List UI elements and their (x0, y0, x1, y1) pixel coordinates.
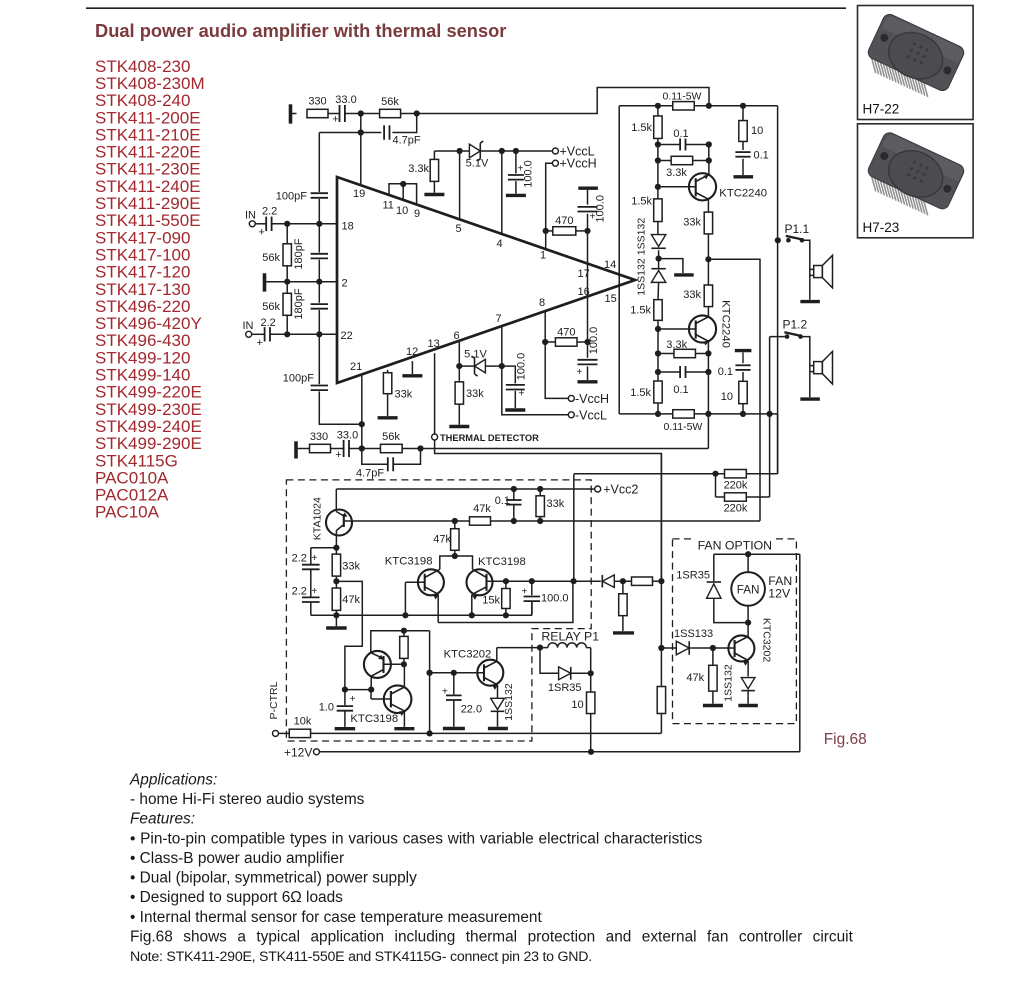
svg-text:19: 19 (353, 188, 365, 200)
svg-text:47k: 47k (686, 672, 704, 684)
svg-text:2: 2 (342, 278, 348, 290)
svg-text:47k: 47k (342, 594, 360, 606)
svg-text:RELAY P1: RELAY P1 (541, 629, 599, 643)
svg-text:STK499-290E: STK499-290E (95, 434, 202, 453)
diode 1SS132 (fan emitter) (722, 664, 758, 705)
svg-text:0.1: 0.1 (673, 384, 688, 396)
capacitor 0.1 (zobel bottom) (718, 351, 752, 382)
svg-text:KTC3198: KTC3198 (350, 713, 398, 725)
svg-text:33k: 33k (466, 388, 484, 400)
wire 220k rail (574, 414, 778, 581)
node (705, 411, 711, 417)
resistor 470 (pin16) (545, 327, 587, 347)
resistor 3.3k (h2) (658, 339, 708, 358)
svg-text:14: 14 (604, 259, 616, 271)
terminal P-CTRL (268, 681, 289, 736)
wire P-CTRL line (311, 732, 662, 734)
pin 6 (454, 330, 460, 366)
node (584, 339, 590, 345)
capacitor 2.2 (lower) (292, 586, 337, 616)
resistor 0.11-5W (top) (663, 90, 702, 110)
wire (56k row to -out rail) (707, 414, 709, 449)
resistor 0.11-5W (bottom) (663, 410, 702, 433)
wire (540, 648, 591, 674)
svg-text:STK417-090: STK417-090 (95, 228, 190, 247)
node (342, 687, 348, 693)
switch P1.2 (783, 318, 808, 339)
svg-text:STK499-140: STK499-140 (95, 366, 190, 385)
pin 4 (497, 151, 503, 250)
svg-text:+: + (442, 687, 448, 698)
resistor 33k (pin6) (449, 366, 484, 426)
node (316, 279, 322, 285)
node (452, 518, 458, 524)
svg-text:PAC010A: PAC010A (95, 468, 169, 487)
node (655, 326, 661, 332)
svg-text:STK4115G: STK4115G (95, 451, 178, 470)
node (284, 331, 290, 337)
node (401, 628, 407, 634)
svg-text:2.2: 2.2 (261, 317, 276, 329)
node (511, 486, 517, 492)
node (705, 256, 711, 262)
node (588, 670, 594, 676)
svg-text:0.1: 0.1 (495, 495, 510, 507)
resistor 10 (zobel bottom) (721, 381, 747, 414)
svg-text:STK499-220E: STK499-220E (95, 383, 202, 402)
wire (298, 448, 310, 450)
capacitor 100.0 (pin17 bootstrap) (578, 188, 607, 231)
wire (emitter jog to output node) (438, 581, 573, 622)
node (333, 545, 339, 551)
wire (-VccL) (502, 366, 569, 415)
svg-text:47k: 47k (433, 534, 451, 546)
resistor (T4 base, unlabeled) (400, 631, 408, 665)
resistor 1.5k (2) (631, 187, 662, 235)
node (529, 578, 535, 584)
capacitor 100pF (ch2) (283, 334, 362, 424)
node (712, 471, 718, 477)
transistor (T4, PNP latch) (364, 651, 404, 690)
svg-text:STK417-130: STK417-130 (95, 280, 190, 299)
node (503, 578, 509, 584)
node (316, 331, 322, 337)
svg-text:STK417-100: STK417-100 (95, 245, 190, 264)
svg-text:21: 21 (350, 361, 362, 373)
svg-text:9: 9 (414, 208, 420, 220)
svg-text:1SR35: 1SR35 (548, 682, 582, 694)
svg-text:KTC3198: KTC3198 (385, 556, 433, 568)
svg-text:33k: 33k (683, 217, 701, 229)
svg-text:22.0: 22.0 (461, 704, 482, 716)
svg-text:STK499-240E: STK499-240E (95, 417, 202, 436)
svg-text:2.2: 2.2 (262, 206, 277, 218)
wire (362, 448, 381, 450)
svg-text:H7-22: H7-22 (863, 102, 900, 117)
package photo H7-22 (858, 6, 974, 120)
wire (404, 582, 406, 615)
svg-text:STK408-240: STK408-240 (95, 91, 190, 110)
svg-text:PAC012A: PAC012A (95, 486, 169, 505)
svg-text:Dual power audio amplifier wit: Dual power audio amplifier with thermal … (95, 20, 506, 41)
resistor 33k (c1) (683, 212, 712, 234)
svg-text:KTC3198: KTC3198 (478, 556, 526, 568)
transistor KTC2240 (lower) (658, 300, 732, 353)
svg-text:STK496-420Y: STK496-420Y (95, 314, 202, 333)
part number list (95, 57, 205, 522)
node (655, 369, 661, 375)
svg-text:15: 15 (605, 293, 617, 305)
svg-text:180pF: 180pF (293, 288, 305, 319)
pins 17 16 wire (578, 231, 590, 342)
node (457, 148, 463, 154)
wire (345, 689, 371, 691)
svg-text:47k: 47k (473, 503, 491, 515)
node (706, 157, 712, 163)
svg-text:+Vcc2: +Vcc2 (603, 483, 638, 497)
wire (657, 329, 659, 381)
node (537, 645, 543, 651)
svg-text:17: 17 (578, 268, 590, 280)
svg-text:470: 470 (555, 215, 573, 227)
capacitor 33.0 (ch1) (332, 94, 356, 126)
wire (pair-left base) (405, 581, 424, 583)
svg-text:18: 18 (342, 221, 354, 233)
relay coil RELAY P1 (540, 629, 599, 647)
transistor KTC3198 (pair right) (467, 556, 526, 616)
wire (-VccH to 470) (545, 342, 568, 398)
svg-text:STK408-230M: STK408-230M (95, 74, 205, 93)
zener 5.1V (top) (466, 141, 489, 170)
wire (429, 631, 431, 734)
capacitor 1.0 (319, 690, 356, 729)
wire (349, 448, 362, 450)
wire bracket (440, 556, 473, 569)
svg-text:3.3k: 3.3k (666, 167, 687, 179)
resistor 1.5k (3) (630, 300, 662, 329)
pin 7 (496, 313, 502, 366)
svg-text:6: 6 (454, 330, 460, 342)
wire (T4 emitter) (371, 631, 430, 653)
wire pin 18 (272, 221, 354, 233)
pin 8 (539, 297, 545, 342)
op-amp hybrid IC (triangle) (337, 177, 635, 383)
capacitor 180pF (lower) (293, 282, 328, 335)
svg-text:• Dual (bipolar, symmetrical): • Dual (bipolar, symmetrical) power supp… (130, 870, 417, 887)
svg-text:4.7pF: 4.7pF (393, 135, 421, 147)
wire (292, 113, 297, 115)
svg-text:220k: 220k (724, 480, 748, 492)
wire (707, 354, 709, 414)
svg-text:1.0: 1.0 (319, 702, 334, 714)
node (359, 445, 365, 451)
resistor 47k (base sense series) (470, 503, 492, 525)
svg-text:KTC3202: KTC3202 (444, 649, 492, 661)
speaker P1.1 (814, 255, 833, 288)
svg-text:5.1V: 5.1V (466, 158, 489, 170)
node (655, 103, 661, 109)
resistor (series, unlabeled) (614, 577, 661, 585)
svg-text:P1.1: P1.1 (785, 222, 810, 236)
node (543, 228, 549, 234)
node (655, 411, 661, 417)
svg-text:+: + (335, 449, 341, 461)
svg-text:33.0: 33.0 (337, 429, 358, 441)
capacitor 0.1 (Vcc2) (495, 489, 522, 521)
terminal IN (ch1) (245, 210, 256, 227)
wire fan top (714, 554, 800, 752)
pin 5 (456, 151, 462, 235)
zener 5.1V (bottom) (459, 349, 502, 377)
node (745, 620, 751, 626)
svg-text:3.3k: 3.3k (666, 339, 687, 351)
resistor 56k (ch2 feedback) (380, 431, 402, 452)
svg-text:100pF: 100pF (283, 373, 314, 385)
diode 1SS132 (relay driver) (488, 683, 515, 728)
svg-text:1SS133: 1SS133 (674, 628, 713, 640)
svg-text:2.2: 2.2 (292, 553, 307, 565)
svg-text:220k: 220k (724, 503, 748, 515)
svg-text:100.0: 100.0 (523, 160, 535, 188)
svg-text:STK411-230E: STK411-230E (95, 160, 201, 179)
svg-text:33k: 33k (547, 498, 565, 510)
svg-text:0.1: 0.1 (754, 150, 769, 162)
svg-text:• Class-B power audio amplifie: • Class-B power audio amplifier (130, 850, 344, 867)
wire (relay feed) (497, 647, 540, 649)
fan motor FAN 12V (731, 554, 792, 622)
node (368, 687, 374, 693)
ground (KTA divider) (326, 615, 347, 628)
wire -out rail (619, 413, 777, 415)
svg-text:Applications:: Applications: (129, 771, 217, 788)
svg-text:STK499-230E: STK499-230E (95, 400, 202, 419)
page top rule (86, 7, 846, 9)
capacitor 180pF (upper) (293, 224, 328, 282)
wire comparator output (487, 580, 601, 582)
capacitor 0.1 (zobel top) (734, 150, 769, 177)
node (503, 612, 509, 618)
svg-text:330: 330 (310, 431, 328, 443)
node (705, 350, 711, 356)
dashed enclosure (protection circuit) (286, 480, 591, 741)
wire (+VccH to 470) (546, 163, 553, 231)
node (499, 363, 505, 369)
svg-text:STK411-220E: STK411-220E (95, 143, 201, 162)
node (740, 103, 746, 109)
svg-text:0.1: 0.1 (673, 128, 688, 140)
wire P1.2 column (769, 337, 771, 497)
capacitor 4.7pF (ch2) (356, 449, 421, 480)
svg-text:KTC2240: KTC2240 (719, 188, 767, 200)
svg-text:KTA1024: KTA1024 (312, 497, 324, 540)
terminal -VccL (568, 408, 607, 422)
node (655, 141, 661, 147)
node (284, 221, 290, 227)
diode 1SR35 (relay) (548, 667, 591, 694)
svg-text:13: 13 (428, 338, 440, 350)
capacitor 33.0 (ch2) (335, 429, 358, 461)
svg-text:3.3k: 3.3k (408, 163, 429, 175)
svg-text:STK411-290E: STK411-290E (95, 194, 201, 213)
svg-text:12V: 12V (768, 587, 791, 601)
node (414, 110, 420, 116)
diode (comparator out) (602, 575, 614, 588)
resistor 47k (fan base) (686, 648, 723, 706)
ground bar (ch2 input) (294, 441, 298, 458)
transistor KTC3198 (pair left) (385, 556, 444, 623)
node (359, 421, 365, 427)
node (333, 578, 339, 584)
svg-text:10: 10 (721, 391, 733, 403)
svg-text:330: 330 (308, 96, 326, 108)
svg-text:100.0: 100.0 (541, 593, 569, 605)
svg-text:100.0: 100.0 (595, 195, 607, 223)
svg-text:1.5k: 1.5k (631, 122, 652, 134)
svg-text:H7-23: H7-23 (863, 220, 900, 235)
wire protection bus (660, 454, 662, 734)
pin 19 (353, 133, 365, 201)
svg-text:FAN OPTION: FAN OPTION (698, 539, 772, 553)
resistor 1.5k (4) (630, 381, 662, 414)
svg-text:+: + (312, 553, 318, 564)
svg-text:33k: 33k (683, 289, 701, 301)
svg-text:KTC3202: KTC3202 (761, 618, 773, 663)
applications/features text block (129, 771, 854, 965)
wire +Vcc2 rail (336, 489, 594, 510)
svg-text:STK411-200E: STK411-200E (95, 108, 201, 127)
resistor 330 (ch1) (307, 96, 328, 118)
node (655, 157, 661, 163)
svg-text:33.0: 33.0 (335, 94, 356, 106)
svg-text:IN: IN (243, 320, 254, 332)
diode 1SS132 (lower pair) (636, 258, 666, 296)
node (571, 578, 577, 584)
svg-text:Note: STK411-290E, STK411-550E: Note: STK411-290E, STK411-550E and STK41… (130, 949, 592, 965)
capacitor 0.1 (2) (658, 366, 708, 396)
svg-text:1.5k: 1.5k (630, 305, 651, 317)
svg-text:KTC2240: KTC2240 (720, 300, 732, 348)
resistor (shunt, unlabeled) (613, 581, 634, 633)
node (537, 486, 543, 492)
ground bar (ch1 input) (289, 104, 293, 123)
wire (base sense) (352, 520, 760, 522)
svg-text:100.0: 100.0 (516, 353, 528, 381)
svg-text:STK496-430: STK496-430 (95, 331, 190, 350)
svg-text:1SS132: 1SS132 (722, 664, 734, 702)
resistor 33k (Vcc2) (536, 489, 565, 521)
resistor 47k (comparator top) (433, 521, 459, 556)
svg-text:FAN: FAN (737, 583, 760, 596)
wire +out rail (619, 105, 777, 107)
wire (658, 250, 660, 269)
wire (770, 337, 814, 398)
svg-text:1SS132: 1SS132 (636, 218, 648, 256)
svg-text:Fig.68: Fig.68 (824, 731, 867, 748)
svg-text:180pF: 180pF (293, 238, 305, 269)
transistor KTC3198 (T5) (350, 664, 414, 729)
node (706, 103, 712, 109)
node (333, 612, 339, 618)
pin 12 ground (402, 346, 422, 376)
svg-text:5.1V: 5.1V (464, 349, 487, 361)
svg-text:16: 16 (578, 286, 590, 298)
transistor KTC3202 (fan) (713, 618, 773, 677)
wire (feedback to +output rail) (417, 88, 709, 114)
resistor 33k (KTA collector) (332, 548, 360, 588)
svg-text:4.7pF: 4.7pF (356, 468, 384, 480)
svg-text:100pF: 100pF (276, 191, 307, 203)
pins 14 15 output bus (604, 106, 619, 414)
ground (diode midpoint) (659, 259, 694, 275)
svg-text:8: 8 (539, 297, 545, 309)
svg-text:P-CTRL: P-CTRL (268, 681, 280, 719)
wire P1.1 column (777, 106, 779, 474)
wire (802, 240, 814, 299)
svg-text:STK408-230: STK408-230 (95, 57, 190, 76)
transistor KTC2240 (upper) (658, 161, 767, 213)
pin 21 (350, 361, 362, 449)
node (513, 148, 519, 154)
pins 11 10 9 bracket (383, 181, 421, 220)
node (456, 363, 462, 369)
svg-text:7: 7 (496, 313, 502, 325)
svg-text:STK411-550E: STK411-550E (95, 211, 201, 230)
svg-text:1.5k: 1.5k (630, 387, 651, 399)
svg-text:22: 22 (341, 330, 353, 342)
wire (331, 448, 345, 450)
svg-text:STK499-120: STK499-120 (95, 348, 190, 367)
resistor 1.5k (1) (631, 106, 662, 145)
wire (657, 282, 660, 299)
svg-text:- home Hi-Fi stereo audio syst: - home Hi-Fi stereo audio systems (130, 791, 365, 808)
pin 1 (540, 231, 546, 262)
capacitor 100.0 (comparator) (522, 581, 569, 615)
wire (402, 448, 420, 450)
dashed enclosure FAN OPTION (673, 533, 797, 724)
terminal -VccH (568, 392, 609, 406)
switch P1.1 (785, 222, 810, 243)
capacitor 22.0 (442, 673, 482, 729)
resistor 33k (c2) (683, 285, 712, 307)
svg-text:10: 10 (571, 699, 583, 711)
svg-text:1.5k: 1.5k (631, 196, 652, 208)
node (740, 411, 746, 417)
svg-text:THERMAL DETECTOR: THERMAL DETECTOR (440, 433, 539, 443)
speaker P1.2 (814, 351, 833, 384)
node (656, 256, 662, 262)
resistor 3.3k (h1) (658, 156, 709, 179)
wire (361, 113, 380, 115)
svg-text:STK496-220: STK496-220 (95, 297, 190, 316)
resistor 10 (relay) (571, 673, 595, 752)
svg-text:+: + (350, 694, 356, 705)
wire (658, 145, 709, 161)
transistor KTC3202 (relay driver) (430, 648, 504, 699)
node (417, 445, 423, 451)
svg-text:10: 10 (751, 125, 763, 137)
wire (33k/47k node to latch) (336, 581, 362, 689)
svg-text:10: 10 (396, 205, 408, 217)
node (451, 670, 457, 676)
node (584, 228, 590, 234)
svg-text:0.1: 0.1 (718, 366, 733, 378)
ground bar (pin2) (263, 273, 267, 291)
svg-text:STK417-120: STK417-120 (95, 263, 190, 282)
node (706, 141, 712, 147)
svg-text:1SS132: 1SS132 (503, 683, 515, 721)
capacitor 100.0 (pin16 bootstrap) (577, 327, 601, 382)
svg-text:+: + (259, 227, 265, 239)
